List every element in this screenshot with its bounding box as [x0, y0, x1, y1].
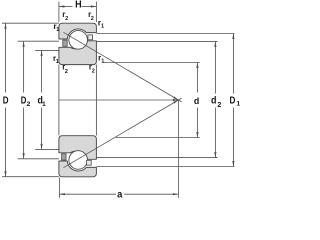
svg-text:1: 1	[42, 101, 46, 108]
svg-text:1: 1	[236, 101, 240, 108]
svg-text:2: 2	[65, 69, 68, 75]
svg-text:1: 1	[101, 58, 104, 64]
svg-text:1: 1	[56, 27, 59, 33]
svg-text:2: 2	[27, 101, 31, 108]
svg-text:2: 2	[92, 69, 95, 75]
svg-text:2: 2	[91, 16, 94, 22]
svg-text:2: 2	[65, 16, 68, 22]
svg-text:2: 2	[217, 102, 221, 109]
svg-text:D: D	[230, 95, 236, 106]
svg-text:1: 1	[101, 24, 104, 30]
svg-text:D: D	[3, 94, 9, 105]
svg-text:1: 1	[56, 59, 59, 65]
svg-text:d: d	[211, 95, 217, 107]
svg-text:d: d	[194, 96, 200, 106]
svg-text:H: H	[75, 0, 82, 9]
svg-text:a: a	[117, 189, 123, 201]
